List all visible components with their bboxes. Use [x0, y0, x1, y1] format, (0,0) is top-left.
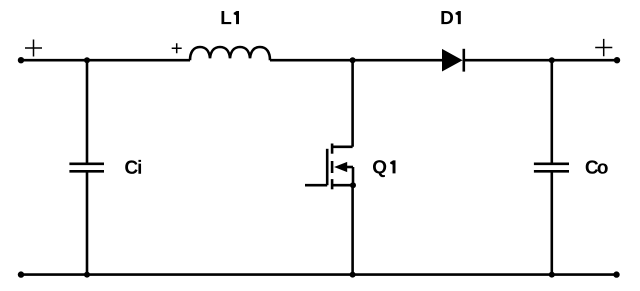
terminal dot bottom-right: [613, 271, 619, 277]
wire top rail right: [464, 59, 617, 62]
terminal dot top-right: [614, 57, 620, 63]
wire top rail middle: [270, 59, 443, 62]
terminal dot top-left: [18, 57, 24, 63]
plus sign input: [25, 40, 42, 57]
label L1: [222, 11, 240, 24]
wire Q1 source vertical: [351, 185, 354, 274]
terminal dot bottom-left: [18, 271, 24, 277]
junction dot bottom Q1: [350, 272, 356, 278]
capacitor Ci plates: [69, 163, 104, 166]
transistor Q1 channel dashes: [331, 144, 334, 154]
junction dot top Ci: [84, 57, 90, 63]
transistor Q1 drain stub: [332, 146, 353, 149]
junction dot bottom Ci: [84, 272, 90, 278]
label Co: [586, 160, 608, 173]
junction dot Q1 source-body: [350, 182, 356, 188]
capacitor Ci vertical wires: [86, 60, 89, 164]
capacitor Co vertical wires: [550, 60, 553, 164]
diode D1 triangle: [442, 49, 463, 72]
capacitor Co plates: [534, 163, 569, 166]
transistor Q1 body arrow: [334, 162, 347, 172]
inductor L1: [190, 47, 270, 60]
label D1: [441, 11, 460, 24]
transistor Q1 gate line: [326, 149, 329, 185]
transistor Q1 source stub: [332, 184, 353, 187]
wire Q1 gate lead: [305, 184, 327, 187]
label Ci: [125, 160, 141, 174]
plus sign output: [595, 39, 612, 56]
wire bottom rail: [21, 273, 617, 276]
transistor Q1 body connection: [346, 166, 353, 169]
label Q1: [373, 160, 396, 177]
wire top rail left: [21, 59, 190, 62]
wire Q1 drain vertical: [351, 60, 354, 147]
junction dot top Q1: [350, 57, 356, 63]
plus sign inductor: [172, 43, 182, 53]
junction dot top Co: [549, 57, 555, 63]
junction dot bottom Co: [549, 272, 555, 278]
diode D1 cathode bar: [462, 49, 465, 72]
